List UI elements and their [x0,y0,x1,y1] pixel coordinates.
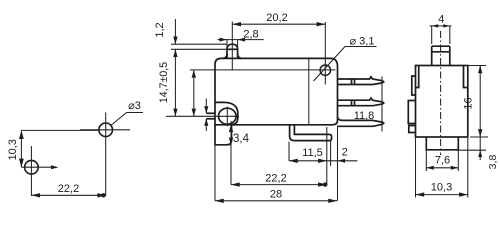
svg-text:⌀3: ⌀3 [128,100,141,112]
svg-text:3,4: 3,4 [233,133,250,145]
svg-text:16: 16 [463,97,475,109]
svg-text:7,6: 7,6 [435,155,450,167]
svg-text:10,3: 10,3 [7,139,19,160]
svg-text:2,8: 2,8 [243,29,258,41]
svg-text:11,8: 11,8 [354,110,375,122]
svg-text:3,8: 3,8 [487,155,499,170]
svg-text:2: 2 [342,147,348,159]
svg-text:28: 28 [270,189,282,201]
svg-text:22,2: 22,2 [265,173,286,185]
svg-text:10,3: 10,3 [431,182,452,194]
svg-text:4: 4 [438,14,444,26]
svg-text:1,2: 1,2 [154,22,166,37]
svg-text:20,2: 20,2 [266,12,287,24]
svg-text:⌀ 3,1: ⌀ 3,1 [350,36,375,48]
svg-text:14,7±0,5: 14,7±0,5 [158,62,170,103]
svg-text:11,5: 11,5 [302,147,323,159]
svg-text:22,2: 22,2 [58,183,79,195]
